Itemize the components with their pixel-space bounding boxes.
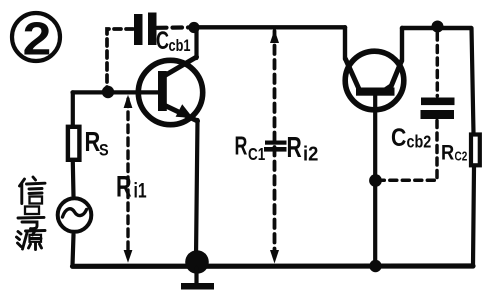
node dot top right <box>432 21 444 33</box>
wire R_S to source <box>71 162 76 196</box>
wire Q2 base down <box>373 96 377 263</box>
wire source branch top <box>71 92 75 125</box>
svg-text:R: R <box>287 132 302 164</box>
label C_cb1 <box>156 26 190 55</box>
node dot Q2 emitter bottom <box>369 260 381 272</box>
svg-text:cb2: cb2 <box>407 132 432 152</box>
bottom rail wire <box>73 263 474 268</box>
wire Q1 collector up <box>194 27 198 58</box>
svg-text:i2: i2 <box>303 144 318 166</box>
svg-text:S: S <box>99 141 109 159</box>
transistor Q2 <box>345 51 404 110</box>
wire Q1 emitter down <box>196 120 198 258</box>
dashed wire C_cb2 bottom to Q2 base node <box>382 121 437 181</box>
signal source circle <box>58 198 92 232</box>
dashed measure line R_i1 <box>126 99 129 256</box>
svg-text:C: C <box>391 123 407 151</box>
dashed measure line R_c1 R_i2 <box>273 31 277 258</box>
dashed wire C_cb2 top <box>436 33 440 96</box>
wire Q2 left lead vertical <box>343 27 347 59</box>
transistor Q1 <box>138 57 202 125</box>
arrow middle down <box>270 250 279 264</box>
node dot at C_cb1 / collector junction <box>188 22 199 33</box>
label R_c1 <box>235 131 266 164</box>
wire R_c2 to bottom rail <box>473 168 474 266</box>
svg-text:i1: i1 <box>134 178 147 202</box>
dashed wire from C_cb1 right plate to collector node <box>157 25 191 30</box>
arrow R_i1 up <box>124 95 133 108</box>
label R_i2 <box>287 132 319 166</box>
arrow middle up <box>270 30 279 44</box>
wire Q1 base <box>73 90 159 94</box>
top rail wire <box>194 25 345 29</box>
equals sign <box>264 141 287 152</box>
svg-text:R: R <box>235 131 248 160</box>
svg-text:C2: C2 <box>455 151 468 164</box>
top right rail wire <box>402 26 471 30</box>
wire source to bottom rail <box>73 235 74 266</box>
label 信号源 glyph hao <box>18 207 44 229</box>
label R_S <box>85 126 109 159</box>
ground <box>181 250 214 289</box>
label 信号源 glyph xin <box>20 177 46 204</box>
svg-text:R: R <box>116 169 132 203</box>
capacitor C_cb1 plates <box>134 13 157 46</box>
node dot Q2 base <box>369 174 382 187</box>
dashed wire from C_cb1 left plate to base node <box>107 29 133 88</box>
resistor R_S <box>68 127 80 160</box>
svg-text:C1: C1 <box>248 145 265 164</box>
right branch wire down to R_c2 <box>472 28 474 133</box>
svg-text:2: 2 <box>23 14 52 65</box>
label R_c2 <box>441 141 467 165</box>
label 信号源 glyph yuan <box>17 231 46 250</box>
label R_i1 <box>116 169 147 203</box>
label C_cb2 <box>391 123 431 152</box>
svg-text:C: C <box>156 26 169 55</box>
figure number badge (2) <box>12 13 60 65</box>
capacitor C_cb2 plates <box>421 98 455 120</box>
wire Q2 right lead vertical <box>400 28 404 61</box>
svg-text:cb1: cb1 <box>169 36 191 55</box>
node dot Q1 base <box>102 86 114 98</box>
svg-text:R: R <box>441 141 454 165</box>
resistor R_c2 <box>471 135 480 166</box>
arrow R_i1 down <box>124 250 133 263</box>
svg-text:R: R <box>85 126 101 157</box>
